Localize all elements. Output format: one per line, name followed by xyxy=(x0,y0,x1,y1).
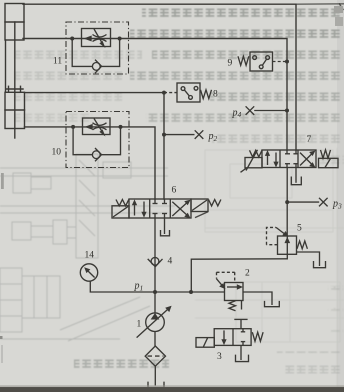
svg-text:9: 9 xyxy=(228,59,233,69)
svg-text:1: 1 xyxy=(137,320,142,330)
svg-text:7: 7 xyxy=(307,135,312,145)
svg-text:2: 2 xyxy=(245,269,250,279)
svg-text:10: 10 xyxy=(52,148,62,158)
svg-text:6: 6 xyxy=(172,186,177,196)
svg-text:8: 8 xyxy=(213,90,218,100)
svg-text:14: 14 xyxy=(85,251,95,261)
svg-text:5: 5 xyxy=(297,224,302,234)
svg-text:11: 11 xyxy=(53,57,62,67)
svg-text:3: 3 xyxy=(217,352,222,362)
svg-text:4: 4 xyxy=(168,257,173,267)
